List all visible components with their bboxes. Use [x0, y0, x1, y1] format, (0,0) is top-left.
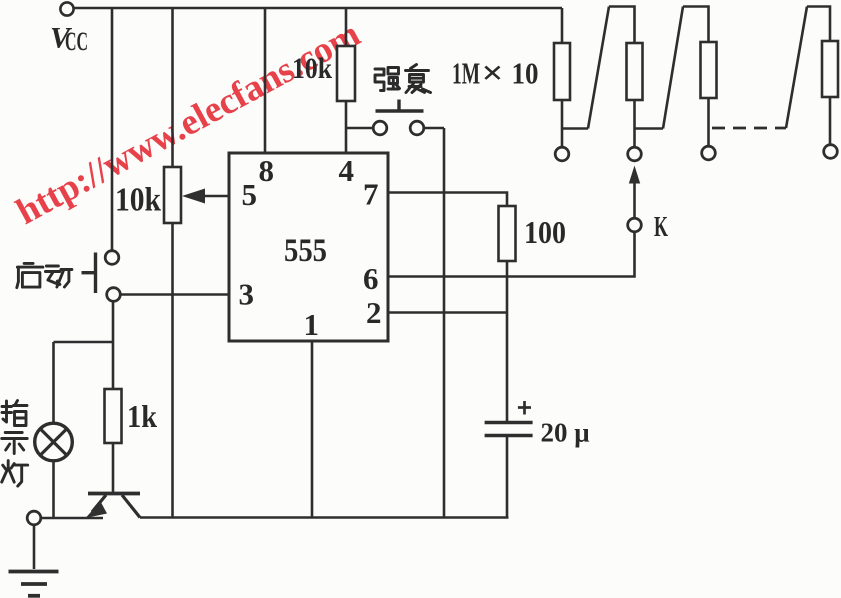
wire capacitor to bottom rail	[506, 437, 509, 518]
capacitor 20u bottom plate	[485, 434, 533, 437]
svg-text:555: 555	[284, 233, 327, 269]
wire dashed R3 to diagonal	[712, 127, 786, 130]
pushbutton 强复 actuator bar	[376, 109, 424, 113]
wire K to arrow	[633, 182, 636, 218]
svg-text:1M: 1M	[452, 56, 480, 91]
wire start button down to 1k	[112, 301, 115, 389]
wire pin 2	[388, 311, 507, 314]
wire 10k to reset button left terminal	[346, 127, 373, 130]
svg-text:10k: 10k	[115, 182, 161, 219]
ground node terminal	[27, 511, 41, 525]
resistor 100 body	[499, 206, 516, 261]
label 强复 (hand-drawn)	[375, 68, 400, 91]
wire pin 3 to start button	[120, 293, 229, 296]
potentiometer 10k body	[164, 167, 181, 223]
wire drop to pin 8	[264, 8, 267, 153]
wire R1 bottom jog	[562, 127, 588, 130]
IC 555 body	[229, 153, 388, 341]
terminal Vcc	[60, 2, 73, 15]
wire pin 1 to bottom rail	[311, 341, 314, 518]
resistor 1k body	[105, 389, 122, 443]
switch K arrowhead	[629, 166, 640, 184]
wire R2 bottom jog	[635, 127, 664, 130]
transistor base bar	[88, 492, 140, 496]
svg-text:100: 100	[524, 214, 566, 250]
capacitor 20u top plate	[485, 421, 533, 424]
lamp 指示灯 symbol	[35, 423, 73, 461]
resistor 10k (top) body	[337, 46, 355, 101]
wire diagonal R1 to R2	[588, 7, 609, 129]
svg-text:20 μ: 20 μ	[541, 417, 590, 448]
wire pin 7 to 100 resistor	[388, 193, 507, 207]
svg-text:7: 7	[363, 177, 379, 212]
wire top supply rail	[74, 7, 562, 10]
capacitor plus sign	[518, 406, 531, 409]
wire 100 bottom through pin6/pin2 to capacitor	[506, 261, 509, 421]
potentiometer wiper arrowhead	[182, 189, 205, 204]
svg-text:4: 4	[339, 153, 355, 188]
resistor chain 1M x10 : resistor 1	[561, 8, 564, 43]
svg-text:×: ×	[482, 55, 504, 92]
resistor chain: resistor 3	[683, 7, 709, 43]
label 启动 (hand-drawn)	[17, 263, 43, 287]
svg-text:CC: CC	[65, 27, 88, 56]
switch K wiper terminal	[628, 218, 642, 232]
svg-text:1k: 1k	[127, 398, 157, 434]
wire drop to 10k resistor	[345, 8, 348, 46]
svg-text:5: 5	[242, 177, 258, 212]
wire branch to lamp	[54, 341, 114, 344]
svg-text:10: 10	[512, 56, 539, 91]
pushbutton 启动 actuator bar	[94, 253, 97, 294]
wire vertical from reset button down to bottom rail	[443, 128, 446, 517]
pushbutton 强复 (reset) terminals	[373, 121, 387, 135]
wire lamp bottom to ground node	[52, 461, 55, 519]
wire pin 6 to switch K	[388, 232, 635, 277]
wire reset button to vertical drop	[424, 127, 444, 130]
svg-text:K: K	[654, 211, 668, 243]
wire drop to potentiometer	[171, 8, 174, 167]
svg-text:3: 3	[239, 277, 255, 312]
svg-text:1: 1	[304, 307, 320, 342]
wire 1k to transistor base	[112, 443, 115, 492]
svg-text:10k: 10k	[292, 52, 332, 85]
wire diagonal to R4	[786, 7, 807, 129]
wire pin 5 to potentiometer wiper	[204, 195, 229, 198]
wire drop to start button	[111, 8, 114, 250]
svg-text:6: 6	[363, 261, 379, 296]
wire diagonal R2 to R3	[663, 7, 683, 129]
svg-text:2: 2	[366, 295, 382, 330]
label 指示灯 (hand-drawn)	[2, 401, 27, 426]
resistor chain: resistor 4	[807, 7, 830, 42]
pushbutton 启动 (start) terminals	[105, 251, 119, 265]
wire bottom rail (collector to capacitor)	[140, 516, 509, 519]
transistor emitter with arrow	[92, 495, 106, 512]
wire potentiometer bottom to bottom rail	[171, 223, 174, 517]
ground symbol	[33, 525, 36, 569]
wire 10k bottom to pin 4	[345, 101, 348, 153]
resistor chain: resistor 2	[609, 7, 635, 44]
svg-text:8: 8	[259, 153, 275, 188]
wire ground node to emitter	[41, 517, 103, 520]
transistor collector	[122, 495, 140, 518]
